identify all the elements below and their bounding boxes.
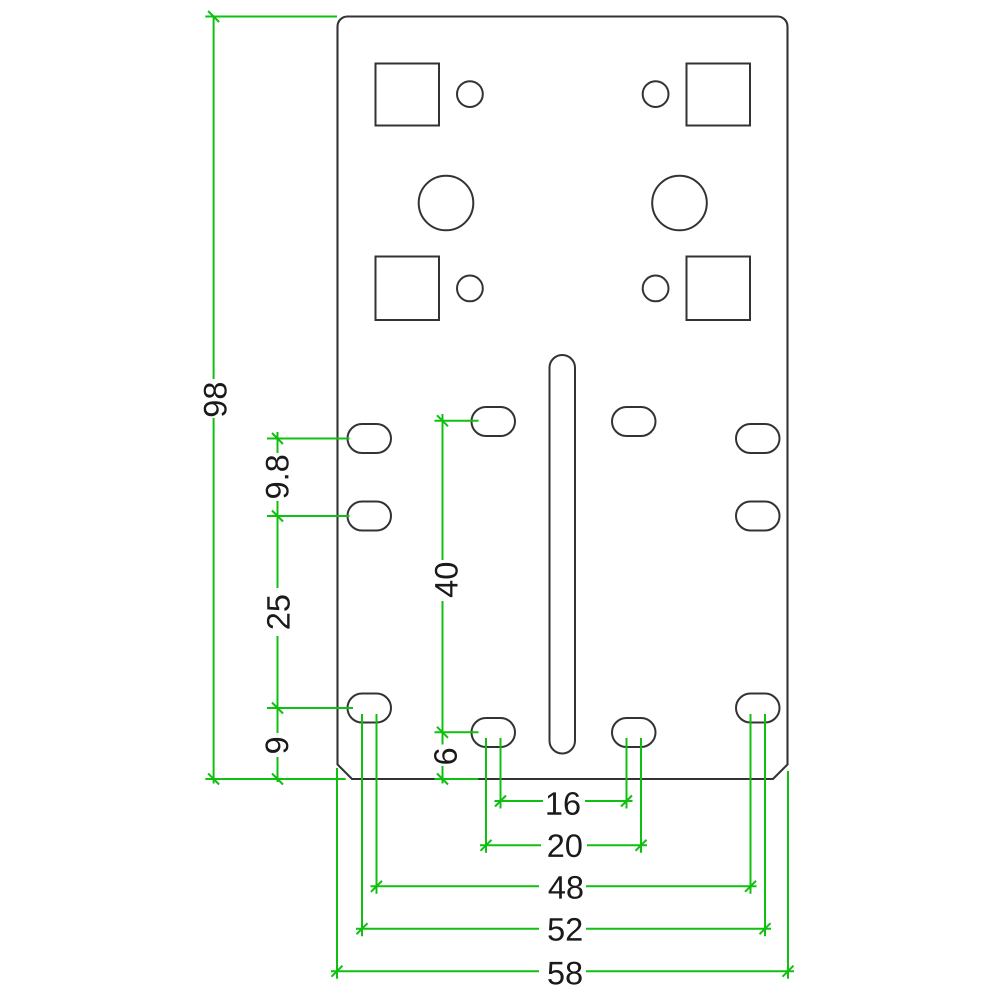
dimension 98 xyxy=(205,11,345,785)
dimension 6 xyxy=(435,732,479,784)
dimension text 9.8 xyxy=(266,456,289,498)
dimension text 40 xyxy=(435,563,458,597)
center vertical slot xyxy=(550,355,576,754)
slot outer-left bottom xyxy=(348,694,392,723)
dimension text 98 xyxy=(204,383,227,416)
slot inner-left bottom xyxy=(472,718,516,747)
small circle top-left xyxy=(457,81,483,107)
small circle bottom-left xyxy=(457,276,483,302)
slot outer-right bottom xyxy=(736,694,780,723)
big circle right xyxy=(652,176,707,231)
dimension text 9 xyxy=(265,738,288,753)
dimension text 6 xyxy=(434,749,457,764)
dimension text 16 xyxy=(547,792,579,815)
slot inner-right top xyxy=(612,407,656,436)
slot inner-right bottom xyxy=(612,718,656,747)
dimension text 58 xyxy=(548,962,581,985)
dimension 16 xyxy=(495,738,633,809)
dimension text 52 xyxy=(548,918,581,941)
dimension 48 xyxy=(371,714,757,894)
dimension 52 xyxy=(356,714,771,936)
square hole top-right xyxy=(687,64,751,126)
dimension 20 xyxy=(480,738,647,853)
dimension 58 xyxy=(331,768,794,979)
big circle left xyxy=(419,176,474,231)
slot outer-left row2 xyxy=(348,502,392,531)
slot outer-right row1 xyxy=(736,424,780,453)
plate outline xyxy=(338,17,788,780)
dimension text 20 xyxy=(548,834,581,857)
dimension 40 xyxy=(435,414,479,745)
slot outer-left row1 xyxy=(348,424,392,453)
square hole bottom-left xyxy=(376,257,440,321)
small circle bottom-right xyxy=(643,276,669,302)
square hole bottom-right xyxy=(687,257,751,321)
dimension text 48 xyxy=(549,876,583,899)
slot outer-right row2 xyxy=(736,502,780,531)
dimension chain 9.8 / 25 / 9 xyxy=(267,432,353,785)
small circle top-right xyxy=(643,81,669,107)
slot inner-left top xyxy=(472,407,516,436)
dimension text 25 xyxy=(267,595,290,628)
square hole top-left xyxy=(376,64,440,126)
